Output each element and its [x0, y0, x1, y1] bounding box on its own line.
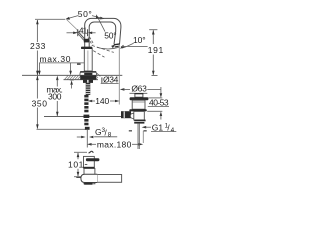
node label 50deg left: [65, 9, 104, 30]
faucet base flange: [80, 72, 97, 76]
wire ext line outlet to 191: [121, 45, 148, 47]
wire ext line outlet vertical: [118, 45, 120, 105]
popup waste knob: [130, 94, 149, 101]
side view body bottom: [84, 183, 92, 185]
node dim 191: [148, 30, 164, 76]
node dim 41 lever: [67, 25, 96, 36]
wire dashed swivel spout position: [92, 45, 114, 52]
svg-text:10°: 10°: [133, 35, 146, 45]
side view lower body: [84, 169, 95, 184]
svg-text:191: 191: [148, 45, 164, 55]
wire ext line hose end level: [37, 128, 86, 130]
svg-text:233: 233: [30, 41, 46, 51]
node label 50deg mid: [96, 14, 117, 40]
node dim 350: [32, 76, 48, 129]
node label 10deg: [120, 35, 146, 49]
wire pop-up rod horizontal: [44, 115, 130, 117]
faucet swivel arc with arrow: [97, 44, 119, 49]
node dim max300: [46, 76, 63, 117]
svg-text:4: 4: [171, 127, 175, 134]
faucet body column front: [81, 39, 92, 71]
faucet mounting nut: [83, 80, 93, 83]
svg-text:8: 8: [108, 132, 112, 139]
popup waste side stub: [121, 111, 135, 118]
side view lever tip: [89, 151, 94, 153]
node dim 233: [30, 20, 46, 75]
side view spout cylinder: [76, 174, 121, 182]
node dim 140 spout reach: [88, 96, 120, 106]
node label G3/8: [77, 127, 117, 139]
svg-text:300: 300: [48, 91, 62, 101]
faucet U1 spout tube front view: [85, 18, 121, 48]
deck mounting surface: [22, 75, 122, 79]
popup waste tailpipe: [129, 124, 147, 149]
svg-text:50°: 50°: [78, 9, 92, 19]
svg-text:G1: G1: [152, 122, 164, 132]
node label G1 1/4: [142, 122, 177, 134]
svg-text:max.180: max.180: [97, 139, 132, 149]
popup waste lower cylinder: [134, 111, 146, 123]
side view: ext line top: [74, 151, 87, 153]
node dim 40-53: [147, 87, 169, 120]
svg-text:140: 140: [95, 96, 109, 106]
node label dia34: [97, 73, 119, 84]
faucet outlet mousseur: [114, 44, 120, 47]
faucet threaded shank: [86, 83, 91, 95]
node label max.30: [38, 54, 84, 88]
wire ext line waste right: [142, 131, 144, 143]
node dim 101: [68, 153, 84, 177]
node dim max.180: [87, 139, 143, 149]
node label dia63: [120, 84, 161, 94]
faucet lever dashed alt position: [88, 37, 94, 45]
svg-text:101: 101: [68, 159, 84, 169]
svg-text:350: 350: [32, 98, 48, 108]
svg-text:Ø63: Ø63: [131, 84, 147, 94]
side view upper body: [83, 156, 99, 168]
popup waste locking ring: [129, 109, 147, 111]
svg-text:40-53: 40-53: [149, 97, 169, 107]
faucet flexible hose: [84, 95, 90, 148]
wire ext line top (faucet top reference): [35, 18, 65, 20]
faucet lever handle front: [77, 31, 85, 41]
popup waste body: [132, 100, 145, 109]
